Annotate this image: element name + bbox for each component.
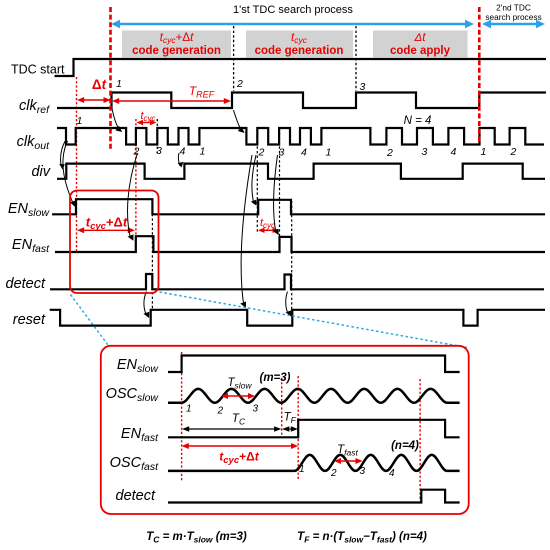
svg-text:Tslow: Tslow xyxy=(227,377,252,391)
inset signal detect xyxy=(168,490,460,503)
inset OSC_slow cycle numbers xyxy=(186,404,259,417)
arrow to EN_slow rise1 xyxy=(63,141,73,202)
black dotted guide at x=291.7 xyxy=(291,201,293,309)
gray box: t_cyc code generation xyxy=(246,31,353,58)
svg-text:code generation: code generation xyxy=(255,45,344,57)
waveforms xyxy=(50,59,546,326)
blue arrow: 2nd search span xyxy=(482,20,545,28)
arrow to EN_fast rise2 xyxy=(274,155,278,233)
svg-text:tcyc+Δt: tcyc+Δt xyxy=(219,450,260,467)
svg-text:detect: detect xyxy=(6,276,46,292)
arrow detect1 to reset rise xyxy=(144,292,147,317)
svg-text:ENslow: ENslow xyxy=(117,357,160,375)
svg-text:tcyc+Δt: tcyc+Δt xyxy=(86,215,128,233)
svg-text:1: 1 xyxy=(186,404,192,415)
svg-text:ENfast: ENfast xyxy=(12,237,50,255)
arrow to reset fall xyxy=(241,155,252,306)
signal EN_fast xyxy=(55,236,545,252)
svg-text:2: 2 xyxy=(236,78,243,90)
svg-text:4: 4 xyxy=(180,146,186,158)
svg-text:3: 3 xyxy=(279,147,285,159)
svg-text:Δt: Δt xyxy=(92,77,107,92)
inset signal OSC_slow xyxy=(168,389,460,403)
svg-text:4: 4 xyxy=(451,146,457,158)
inset label T_slow and red arrow xyxy=(221,377,255,399)
svg-text:1'st TDC search process: 1'st TDC search process xyxy=(233,4,353,16)
svg-text:OSCfast: OSCfast xyxy=(110,455,159,473)
svg-text:TF = n·(Tslow−Tfast) (n=4): TF = n·(Tslow−Tfast) (n=4) xyxy=(297,531,427,545)
inset red dotted guide at x=181.6 xyxy=(181,352,183,481)
gray box: t_cyc+dt code generation xyxy=(122,31,231,58)
svg-text:TC: TC xyxy=(232,413,246,427)
black dotted guide at x=279.5 xyxy=(279,128,281,236)
svg-text:detect: detect xyxy=(116,488,156,504)
inset signal EN_fast xyxy=(168,420,460,438)
svg-text:2: 2 xyxy=(217,406,224,417)
svg-text:TF: TF xyxy=(284,412,297,426)
svg-text:code apply: code apply xyxy=(390,45,451,57)
svg-text:N = 4: N = 4 xyxy=(404,115,432,127)
red annotation: t_cyc (clk_out) label and arrow xyxy=(137,110,157,125)
inset label t_cyc+dt and red arrow xyxy=(182,443,299,466)
inset OSC_fast cycle numbers xyxy=(299,464,395,479)
svg-text:4: 4 xyxy=(301,147,307,159)
black dotted guide at x=356 (box2/box3 boundary) xyxy=(355,26,357,91)
inset signal OSC_fast xyxy=(168,455,460,471)
svg-text:(m=3): (m=3) xyxy=(260,372,291,384)
arrow clk_out2 to EN_fast rise1 xyxy=(128,153,138,239)
arrow to EN_slow rise2 xyxy=(252,155,256,204)
signal TDC start xyxy=(55,59,547,76)
svg-text:clkref: clkref xyxy=(19,98,50,116)
inset label T_C and black arrow xyxy=(182,413,281,432)
arrow detect2 to reset rise2 xyxy=(286,292,289,316)
svg-text:TREF: TREF xyxy=(189,84,215,100)
svg-text:div: div xyxy=(31,164,50,180)
thin curved connector arrows xyxy=(61,109,289,317)
inset red dotted guide at x=420.1 xyxy=(419,379,421,501)
signal detect xyxy=(50,274,544,289)
svg-text:Δt: Δt xyxy=(414,32,427,44)
inset waveforms xyxy=(168,356,460,503)
signal clk_out xyxy=(57,128,544,145)
svg-text:3: 3 xyxy=(253,404,259,415)
svg-text:reset: reset xyxy=(13,312,46,328)
svg-text:(n=4): (n=4) xyxy=(391,440,419,452)
svg-text:ENfast: ENfast xyxy=(121,426,159,444)
svg-text:1: 1 xyxy=(299,464,305,475)
connector arrowheads xyxy=(59,126,291,318)
signal clk_ref xyxy=(57,93,546,109)
svg-text:4: 4 xyxy=(389,468,395,479)
clk_out cycle numbers xyxy=(77,115,517,159)
red rounded callout box (zoom source) xyxy=(70,191,159,294)
svg-text:2: 2 xyxy=(258,147,265,159)
svg-text:search process: search process xyxy=(485,12,541,22)
inset red dotted guide at x=281.7 xyxy=(281,378,283,437)
signal reset xyxy=(50,310,545,326)
svg-text:1: 1 xyxy=(481,146,487,158)
gray box: dt code apply xyxy=(373,31,468,58)
signal EN_slow xyxy=(52,199,545,214)
svg-text:3: 3 xyxy=(422,146,428,158)
red dashed guide line at x=479.3 (start of 2nd search) xyxy=(478,7,481,143)
black dotted guide at x=257.3 xyxy=(256,128,258,232)
blue arrow: 1st search span xyxy=(111,20,474,28)
svg-text:2: 2 xyxy=(133,146,140,158)
svg-text:code generation: code generation xyxy=(132,45,221,57)
svg-text:2: 2 xyxy=(386,147,393,159)
arrow clk_out to div rise2 xyxy=(178,153,180,166)
blue dotted callout line left xyxy=(71,295,109,346)
svg-text:TDC start: TDC start xyxy=(11,63,65,77)
blue dotted callout line right xyxy=(160,292,468,348)
red annotation: t_cyc+dt (EN_slow) label and arrow xyxy=(77,215,135,234)
clk_ref cycle numbers xyxy=(116,78,366,93)
svg-text:1: 1 xyxy=(77,115,83,127)
inset red rounded box xyxy=(101,346,469,514)
svg-text:clkout: clkout xyxy=(17,134,50,152)
svg-text:2'nd TDC: 2'nd TDC xyxy=(496,3,531,13)
red annotation: delta-t label and arrow xyxy=(77,77,111,103)
red annotation: T_REF label and arrow xyxy=(112,84,231,104)
signal div xyxy=(57,164,545,179)
svg-text:3: 3 xyxy=(360,466,366,477)
inset label T_F and black arrow xyxy=(282,412,298,432)
svg-text:OSCslow: OSCslow xyxy=(106,386,160,404)
inset signal EN_slow xyxy=(168,356,460,373)
arrow clk_ref1 to clk_out xyxy=(112,109,120,131)
svg-text:3: 3 xyxy=(156,145,162,157)
svg-text:3: 3 xyxy=(360,81,366,93)
svg-text:TC = m·Tslow (m=3): TC = m·Tslow (m=3) xyxy=(146,531,247,545)
arrow clk_ref2 to clk_out fall xyxy=(234,110,243,132)
red dashed guide line at x=110.5 (start of 1st search) xyxy=(109,7,112,149)
black dotted guide at x=233.6 (box1/box2 boundary) xyxy=(233,26,235,91)
svg-text:Tfast: Tfast xyxy=(337,444,358,458)
inset label T_fast and red arrow xyxy=(334,444,363,464)
arrow clk_out to div rise1 xyxy=(61,139,67,166)
svg-text:2: 2 xyxy=(330,468,337,479)
red annotation: t_cyc (2nd, EN_slow) label and arrow xyxy=(258,217,279,233)
black dotted guide at x=152.4 (EN fall) xyxy=(151,200,153,309)
red dotted guide at x=135.9 xyxy=(135,119,137,252)
svg-text:2: 2 xyxy=(510,146,517,158)
red dotted guide at x=76.5 xyxy=(76,77,78,252)
svg-text:1: 1 xyxy=(200,146,206,158)
svg-text:1: 1 xyxy=(326,147,332,159)
svg-text:1: 1 xyxy=(116,78,122,90)
svg-text:ENslow: ENslow xyxy=(8,201,51,219)
black dashed guide at x=157.3 (t_cyc right mark) xyxy=(156,119,158,153)
inset red dotted guide at x=298.2 xyxy=(297,376,299,481)
